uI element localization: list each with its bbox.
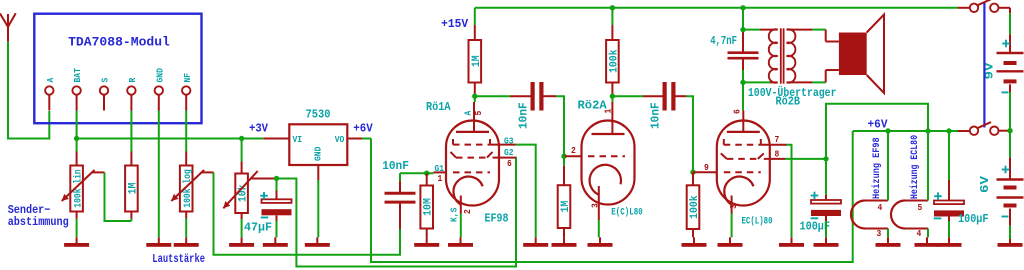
junction C6 top — [740, 27, 745, 32]
grid G2 of U1 — [456, 157, 487, 159]
svg-text:Heizung EF98: Heizung EF98 — [871, 137, 883, 199]
wire C3 to grid of Roe2A — [556, 96, 564, 156]
svg-text:VI: VI — [293, 135, 303, 145]
wire cathode U3 to ground — [598, 220, 600, 237]
capacitor C5 100uF — [825, 159, 827, 195]
junction rail R4 — [610, 5, 615, 10]
wire 6V minus to ground — [1009, 209, 1011, 226]
svg-text:9: 9 — [704, 163, 709, 173]
potentiometer R7 10k — [241, 139, 243, 162]
svg-text:100µF: 100µF — [958, 212, 989, 226]
wire cathode U1 to ground — [460, 214, 462, 238]
svg-text:7530: 7530 — [306, 108, 331, 122]
wire S2 to battery node — [999, 130, 1011, 132]
svg-text:10nF: 10nF — [649, 102, 663, 129]
antenna ANT1 — [0, 14, 8, 27]
grid G1 of U1 — [453, 171, 490, 173]
svg-text:Heizung ECL80: Heizung ECL80 — [909, 135, 921, 199]
svg-text:G2: G2 — [504, 148, 514, 158]
wire R4 bottom to anode 2 node — [611, 83, 613, 97]
wire G3 U4 to ground — [787, 145, 792, 238]
anode of U1 — [473, 102, 475, 132]
wire R7 wiper to G2 of tube 1 — [277, 158, 517, 267]
svg-text:100V-Übertrager: 100V-Übertrager — [748, 84, 837, 100]
junction grid Roe2B — [690, 170, 695, 175]
junction G1 node — [424, 171, 429, 176]
wire 9V minus to switch node — [1009, 84, 1011, 92]
switch S1 (anode supply) — [970, 4, 978, 12]
capacitor C1 47uF — [276, 179, 278, 191]
wire anode 2 node to pin 1 — [611, 96, 613, 102]
junction heater 2 — [925, 128, 930, 133]
wire S1 to 9V battery — [999, 7, 1011, 9]
resistor R2 10M — [426, 173, 428, 185]
svg-text:E(C)L80: E(C)L80 — [611, 207, 642, 219]
svg-text:10M: 10M — [423, 198, 435, 216]
junction battery node — [1007, 128, 1012, 133]
junction anode 1 node — [472, 94, 477, 99]
svg-text:A: A — [45, 77, 56, 82]
pin NF of TDA7088 module — [182, 86, 190, 94]
wire pot R5 bottom to ground — [76, 219, 78, 238]
anode of U3 — [611, 102, 613, 134]
tube U1 EF98 envelope — [446, 121, 499, 206]
capacitor C3 10nF (coupling) — [475, 95, 510, 97]
pin GND of 7530 to ground — [317, 165, 319, 180]
TDA7088 module box U2 — [34, 14, 201, 124]
wire G3 to ground — [516, 145, 536, 238]
svg-text:GND: GND — [314, 146, 324, 161]
junction at 10k pot feed — [239, 136, 244, 141]
pin R of TDA7088 module — [127, 86, 135, 94]
svg-text:5: 5 — [918, 203, 923, 213]
ground G3 — [535, 237, 537, 243]
svg-text:VO: VO — [335, 135, 345, 145]
svg-text:Rö1A: Rö1A — [426, 100, 451, 114]
wire secondary bottom to speaker — [787, 81, 813, 83]
svg-text:+6V: +6V — [868, 119, 888, 132]
tube U3 E(C)L80 triode envelope — [582, 121, 635, 205]
junction C5 top node — [823, 156, 828, 161]
wire R7 bottom to ground — [241, 213, 243, 219]
pin VI wire — [263, 138, 289, 140]
svg-text:100k: 100k — [608, 49, 620, 73]
pin VO wire — [347, 138, 362, 140]
resistor R1 1M — [130, 139, 132, 152]
svg-text:A: A — [464, 110, 474, 115]
ground battery — [998, 243, 1023, 247]
svg-text:+6V: +6V — [353, 123, 372, 136]
svg-text:2: 2 — [463, 209, 473, 214]
cathode of U1 — [453, 177, 482, 205]
ground H2 — [926, 237, 928, 243]
junction C7 — [946, 128, 951, 133]
junction anode 2 node — [610, 94, 615, 99]
potentiometer R6 100k log (volume) — [185, 139, 187, 152]
switch link (blue) — [983, 3, 985, 128]
ground C7 — [948, 237, 950, 243]
heater ECL80 (H2) — [891, 201, 905, 229]
svg-text:3: 3 — [591, 203, 601, 208]
ground R2 — [426, 237, 428, 243]
wire wiper R5 to R1 bottom — [105, 172, 132, 221]
battery B2 6V — [1009, 131, 1011, 158]
ground R9 — [693, 237, 695, 243]
svg-text:3: 3 — [729, 204, 739, 209]
svg-text:5: 5 — [474, 111, 484, 116]
+3V bus wire — [77, 138, 264, 140]
svg-text:1: 1 — [438, 174, 443, 184]
wire R2 bottom to ground — [426, 229, 428, 238]
+6V heater rail wire — [853, 130, 958, 132]
capacitor C6 4.7nF — [742, 29, 744, 52]
grid G3 of U4 — [724, 144, 761, 146]
grid G3 of U1 — [453, 144, 490, 146]
svg-text:1M: 1M — [471, 55, 483, 67]
ground GND pin — [158, 237, 160, 243]
transformer TR1 core — [780, 28, 782, 83]
grid of U3 — [588, 155, 625, 157]
wire +6V from VO to heater rail — [371, 131, 853, 262]
ground R7 — [241, 237, 243, 243]
junction wiper R7 / C1 — [274, 176, 279, 181]
ground H1 — [887, 237, 889, 243]
svg-text:GND: GND — [154, 68, 165, 83]
junction grid Roe2A — [561, 154, 566, 159]
svg-text:6V: 6V — [979, 176, 992, 193]
svg-text:3: 3 — [877, 229, 882, 239]
battery B1 9V — [997, 52, 1024, 54]
wire rail to heater H2 — [927, 131, 929, 201]
grid G1 of U4 — [724, 171, 761, 173]
svg-text:100k: 100k — [689, 195, 701, 219]
cathode of U4 — [724, 177, 753, 205]
wire heater H2 to ground — [927, 229, 929, 238]
svg-text:EC(L)80: EC(L)80 — [742, 216, 773, 228]
svg-text:BAT: BAT — [72, 68, 83, 83]
svg-text:10nF: 10nF — [517, 102, 531, 129]
transformer TR1 primary winding — [769, 29, 778, 43]
ground cathode U1 — [460, 237, 462, 243]
ground G3 U4 — [791, 237, 793, 243]
wire cathode U4 to ground — [731, 214, 733, 238]
junction heater 1 — [885, 128, 890, 133]
wire transformer bottom to anode U4 — [742, 82, 744, 110]
wire rail to heater H1 — [887, 131, 889, 201]
ground R8 — [563, 237, 565, 243]
svg-text:G1: G1 — [435, 164, 445, 174]
wire C7 bottom to ground — [948, 221, 950, 237]
svg-text:6: 6 — [507, 159, 512, 169]
wire R9 bottom to ground — [692, 229, 694, 237]
wire G2 U4 to C5 node — [785, 158, 826, 160]
svg-text:1M: 1M — [127, 182, 139, 194]
wire pot R6 bottom to ground — [185, 219, 187, 238]
cathode of U3 — [590, 165, 621, 195]
wire GND pin to ground — [158, 111, 160, 238]
svg-text:EF98: EF98 — [485, 212, 509, 226]
svg-text:S: S — [100, 77, 111, 82]
svg-text:8: 8 — [775, 150, 780, 160]
svg-text:4: 4 — [917, 229, 922, 239]
heater EF98 (H1) — [851, 201, 865, 229]
svg-text:+15V: +15V — [441, 18, 468, 31]
ground cathode U4 — [729, 237, 731, 243]
svg-text:R: R — [127, 77, 138, 82]
wire heater H1 to ground — [887, 229, 889, 238]
svg-text:7: 7 — [775, 135, 780, 145]
wire NF to volume pot — [185, 111, 187, 139]
capacitor C7 100uF (heater filter) — [948, 131, 950, 180]
ground pot R5 — [76, 237, 78, 243]
wire secondary top to speaker — [787, 29, 813, 31]
ground cathode U3 — [599, 237, 601, 243]
svg-text:47µF: 47µF — [244, 220, 272, 234]
wire BAT to +3V bus — [76, 111, 78, 139]
svg-text:NF: NF — [182, 73, 193, 83]
resistor R4 100k (anode load 2) — [611, 8, 613, 25]
ground C5 — [825, 237, 827, 243]
wire antenna to pin A — [8, 42, 49, 139]
svg-text:6: 6 — [733, 109, 743, 114]
svg-text:10nF: 10nF — [382, 159, 409, 173]
capacitor C4 10nF (coupling 2) — [612, 95, 643, 97]
wire R to R1 — [130, 111, 132, 139]
svg-text:K,S: K,S — [450, 207, 460, 222]
svg-text:+3V: +3V — [249, 123, 268, 136]
junction rail transformer — [740, 5, 745, 10]
+15V rail wire — [475, 7, 958, 9]
svg-text:4: 4 — [878, 203, 883, 213]
svg-text:TDA7088-Modul: TDA7088-Modul — [68, 35, 170, 50]
pin BAT of TDA7088 module — [72, 86, 80, 94]
wire G2 net under speaker to +6V rail — [826, 104, 928, 159]
wire C1 bottom to ground — [276, 221, 278, 237]
potentiometer R5 100k lin — [76, 139, 78, 152]
transformer TR1 secondary winding — [787, 29, 796, 43]
pin S of TDA7088 module — [100, 86, 108, 94]
wire volume wiper to C2 — [214, 172, 401, 254]
svg-text:1: 1 — [603, 108, 613, 113]
pin A of TDA7088 module — [45, 86, 53, 94]
ground C1 — [274, 237, 276, 243]
regulator IC1 7530 — [289, 124, 347, 165]
grid G2 of U4 — [727, 158, 758, 160]
wire C4 to grid of Roe2B — [686, 96, 693, 172]
resistor R8 1M (grid leak 2) — [563, 156, 565, 165]
tube U4 EC(L)80 envelope — [717, 121, 770, 206]
svg-text:2: 2 — [571, 146, 576, 156]
switch S2 (heater supply) — [970, 127, 978, 135]
svg-text:Lautstärke: Lautstärke — [152, 252, 205, 266]
speaker LS1 — [839, 33, 867, 76]
wire C2 top to G1 node — [400, 172, 434, 174]
junction at BAT — [74, 136, 79, 141]
wire C5 bottom to ground — [825, 221, 827, 237]
wire R8 bottom to ground — [563, 228, 565, 237]
svg-text:abstimmung: abstimmung — [8, 215, 69, 229]
resistor R9 100k (grid leak 3) — [692, 172, 694, 185]
pin GND of TDA7088 module — [155, 86, 163, 94]
wire R3 bottom to anode node — [474, 83, 476, 97]
junction C6 bottom — [740, 80, 745, 85]
wire rail to transformer top — [742, 8, 744, 30]
ground 7530 — [316, 237, 318, 243]
wire anode node down to pin A — [474, 96, 476, 102]
resistor R3 1M (anode load) — [474, 8, 476, 25]
svg-text:G3: G3 — [504, 136, 514, 146]
anode of U4 — [742, 110, 744, 131]
ground pot R6 — [185, 237, 187, 243]
svg-text:1M: 1M — [560, 200, 572, 212]
svg-text:4,7nF: 4,7nF — [710, 34, 737, 48]
